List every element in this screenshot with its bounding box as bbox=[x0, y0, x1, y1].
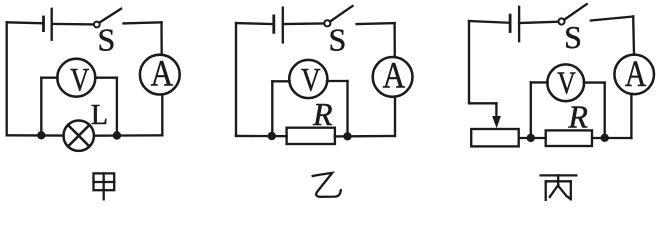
switch S pivot circle C2 bbox=[324, 20, 330, 26]
wire: C3 switch to top-right corner bbox=[591, 17, 633, 21]
wire: C2 top-left segment to battery bbox=[236, 23, 274, 24]
voltmeter V circle C3 bbox=[547, 64, 584, 101]
battery cell: C3 long plate bbox=[518, 7, 520, 41]
switch S lever C3 bbox=[564, 4, 587, 20]
wire: C2 voltmeter left horizontal bbox=[272, 80, 289, 82]
wire: C3 slider feed horizontal bbox=[469, 102, 496, 104]
wire: C2 voltmeter left drop bbox=[271, 81, 273, 136]
wire: C1 right vertical lower (ammeter to bottom) bbox=[161, 94, 163, 135]
wire: C3 battery to switch bbox=[519, 22, 558, 23]
switch S lever C2 bbox=[330, 6, 352, 22]
label jia (Chinese) drawn strokes bbox=[94, 173, 115, 199]
ammeter A circle C2 bbox=[373, 57, 413, 97]
wire: C3 left vertical bbox=[468, 21, 470, 103]
wire: C1 voltmeter left drop bbox=[40, 78, 42, 136]
label bing (Chinese) drawn strokes bbox=[541, 175, 577, 200]
wire: C2 bottom left segment bbox=[236, 135, 287, 138]
resistor R rectangle C3 bbox=[546, 130, 592, 146]
battery cell: C1 long plate bbox=[51, 9, 53, 40]
svg-text:A: A bbox=[383, 56, 406, 97]
wire: C1 bottom left segment bbox=[7, 134, 64, 137]
svg-text:S: S bbox=[98, 22, 116, 58]
switch S pivot circle C3 bbox=[558, 18, 564, 24]
svg-text:V: V bbox=[70, 63, 89, 99]
battery cell: C2 short plate bbox=[272, 16, 275, 32]
wire: C2 voltmeter right horizontal bbox=[327, 80, 348, 82]
junction dot C2 left bbox=[268, 132, 276, 140]
wire: C3 resistor to right dot to ammeter branch bbox=[592, 137, 631, 139]
wire: C1 voltmeter right drop bbox=[116, 78, 118, 136]
svg-text:A: A bbox=[151, 54, 174, 95]
wire: C1 battery to switch bbox=[52, 23, 94, 26]
wire: C3 voltmeter left drop bbox=[530, 82, 532, 137]
ammeter A circle C1 bbox=[140, 55, 180, 95]
battery cell: C3 short plate bbox=[509, 15, 512, 31]
rheostat rectangle C3 bbox=[471, 129, 519, 146]
wire: C1 right vertical upper (to ammeter) bbox=[160, 22, 163, 55]
junction dot C1 left bbox=[37, 131, 45, 139]
svg-text:S: S bbox=[329, 21, 347, 57]
wire: C2 bottom right segment bbox=[335, 135, 395, 138]
svg-text:R: R bbox=[567, 99, 588, 135]
svg-text:S: S bbox=[564, 19, 582, 55]
svg-text:V: V bbox=[301, 62, 321, 98]
resistor R rectangle C2 bbox=[287, 128, 335, 144]
junction dot C2 right bbox=[343, 132, 351, 140]
wire: C1 left vertical bbox=[6, 22, 8, 135]
voltmeter V circle C2 bbox=[289, 60, 327, 98]
lamp L cross stroke 1 bbox=[68, 125, 89, 146]
voltmeter V circle C1 bbox=[57, 59, 95, 97]
wire: C1 bottom right segment bbox=[94, 134, 162, 137]
wire: C2 voltmeter right drop bbox=[346, 81, 348, 136]
battery cell: C1 short plate bbox=[42, 17, 45, 31]
wire: C2 switch to top-right corner bbox=[357, 23, 395, 24]
switch S pivot circle C1 bbox=[94, 22, 100, 28]
lamp L cross stroke 2 bbox=[68, 125, 89, 146]
wire: C2 right vertical lower bbox=[394, 97, 396, 136]
wire: C3 right vertical upper (to ammeter) bbox=[632, 17, 635, 55]
wire: C1 switch to top-right corner bbox=[124, 22, 162, 23]
wire: C3 right vertical lower bbox=[630, 94, 632, 138]
wire: C3 top-left segment to battery bbox=[469, 21, 510, 23]
junction dot C1 right bbox=[113, 131, 121, 139]
label yi (Chinese) drawn strokes bbox=[313, 173, 341, 197]
svg-text:R: R bbox=[312, 96, 333, 132]
wire: C1 voltmeter right horizontal bbox=[95, 77, 117, 79]
wire: C2 right vertical upper (to ammeter) bbox=[393, 23, 396, 57]
switch S lever C1 bbox=[99, 9, 121, 23]
wire: C3 voltmeter right horizontal bbox=[584, 81, 605, 83]
rheostat slider arrow shaft bbox=[495, 103, 497, 119]
svg-text:V: V bbox=[557, 64, 576, 100]
wire: C1 voltmeter left horizontal bbox=[41, 77, 57, 79]
wire: C1 top-left segment to battery bbox=[7, 22, 44, 23]
junction dot C3 right bbox=[601, 134, 609, 142]
wire: C2 battery to switch bbox=[283, 22, 324, 25]
wire: C2 left vertical bbox=[235, 23, 237, 136]
wire: C3 voltmeter right drop bbox=[604, 83, 606, 138]
junction dot C3 left bbox=[527, 134, 535, 142]
svg-text:A: A bbox=[625, 54, 647, 95]
battery cell: C2 long plate bbox=[282, 8, 284, 43]
lamp L circle C1 bbox=[63, 121, 93, 151]
rheostat slider arrowhead bbox=[492, 116, 501, 128]
wire: C3 voltmeter left horizontal bbox=[531, 81, 548, 83]
ammeter A circle C3 bbox=[614, 55, 654, 95]
wire: C3 rheostat to left dot to resistor bbox=[519, 137, 546, 139]
svg-text:L: L bbox=[91, 100, 108, 131]
